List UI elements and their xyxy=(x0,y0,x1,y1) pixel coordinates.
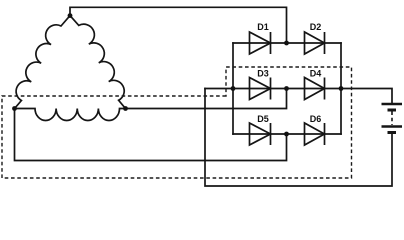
svg-text:D3: D3 xyxy=(257,69,269,79)
svg-text:D4: D4 xyxy=(310,69,322,79)
svg-text:D5: D5 xyxy=(257,114,269,124)
svg-text:D2: D2 xyxy=(310,22,322,32)
svg-text:D1: D1 xyxy=(257,22,269,32)
svg-text:D6: D6 xyxy=(310,114,322,124)
